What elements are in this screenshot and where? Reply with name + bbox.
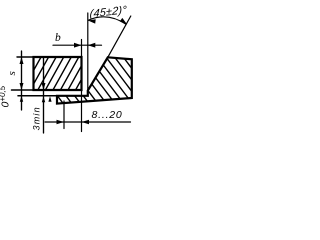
extension line of left plate right edge (below, for 8...20): [81, 90, 83, 132]
lip top extension line to the left (for gap 0+0,5): [18, 95, 57, 97]
small up arrow near lip at x50: [48, 96, 51, 102]
svg-text:3min: 3min: [32, 106, 42, 130]
svg-text:0+0,5: 0+0,5: [0, 85, 12, 107]
left plate hatching: [32, 0, 84, 183]
left plate bottom edge extension (for s / gap): [12, 89, 34, 91]
dimension s: vertical line with arrows: [21, 51, 23, 110]
dimension b horizontal line: [53, 44, 88, 46]
extension line of left plate right edge (above, for b): [81, 40, 83, 58]
left plate top edge extension (for s): [17, 56, 34, 58]
left plate contour: [34, 57, 82, 90]
right piece hatching: [55, 0, 134, 209]
gap 0+0,5 lower outside arrow: [20, 96, 23, 102]
svg-text:(45±2)°: (45±2)°: [89, 4, 127, 20]
weld joint preparation drawing: [0, 0, 145, 139]
dimension 8...20 line: [45, 121, 131, 123]
svg-text:s: s: [6, 71, 18, 75]
bevel thin extension line up to angle dimension: [108, 16, 131, 57]
extension line of lip left region (for 8...20): [63, 101, 65, 129]
angle dimension arc: [88, 17, 127, 25]
dimension line at x43.5 (gap arrows): [43, 57, 45, 133]
right piece contour (bevelled plate with integral backing lip): [57, 57, 132, 103]
svg-text:8...20: 8...20: [92, 109, 123, 121]
svg-text:b: b: [55, 32, 61, 44]
extension line of root face (vertical): [87, 13, 89, 91]
b right tail with arrow: [88, 44, 102, 46]
